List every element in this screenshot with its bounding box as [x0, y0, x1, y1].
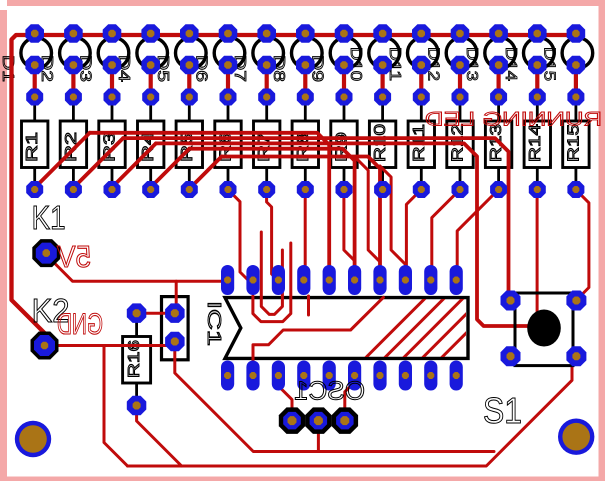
LED D6 name label	[193, 55, 210, 82]
switch S1 pads	[501, 291, 587, 367]
wire: R16 top pad to C1 top pad	[137, 312, 175, 315]
IC pin 1 pad (top row)	[221, 265, 234, 295]
IC pin 20 pad (bottom row)	[221, 361, 234, 391]
wire: R3 to bus3	[110, 143, 156, 189]
resistor R8	[292, 103, 318, 183]
svg-text:IC1: IC1	[204, 301, 224, 346]
LED D8 silkscreen circle	[292, 38, 323, 69]
resistor R10	[369, 103, 395, 183]
LED D3 name label	[77, 55, 94, 82]
svg-text:S1: S1	[483, 390, 522, 431]
IC pin 4 pad (top row)	[297, 265, 310, 295]
connector K1 pad	[32, 239, 60, 267]
LED D13 name label	[463, 47, 480, 81]
wire: K2 to C1 bottom pad (GND)	[45, 342, 175, 346]
LED D1 name label	[0, 55, 16, 82]
LED D4 name label	[115, 55, 132, 82]
LED D7 name label	[231, 55, 248, 82]
IC pin 12 pad (bottom row)	[424, 361, 437, 391]
resistor R5 pads	[181, 89, 198, 199]
label RUNNING LED (mirrored, bottom copper)	[425, 110, 602, 131]
wire: R12 to IC pin 9	[432, 190, 460, 265]
resistor R4	[138, 103, 164, 183]
IC pin 13 pad (bottom row)	[399, 361, 412, 391]
IC pin 8 pad (top row)	[399, 265, 412, 295]
LED D1 pads	[25, 24, 44, 74]
resistor R14	[524, 103, 550, 183]
LED D2 pads	[64, 24, 83, 74]
resistor R13	[485, 103, 511, 183]
label GND (mirrored, bottom copper)	[57, 308, 103, 341]
wire: bus5 to IC pin 7	[222, 157, 380, 266]
resistor R7	[254, 103, 280, 183]
LED D14 pads	[528, 24, 547, 74]
svg-text:OSC1: OSC1	[294, 376, 365, 406]
LED D12 silkscreen circle	[446, 38, 477, 69]
board dimension frame bottom	[0, 477, 605, 481]
wire: R14 to S1	[536, 190, 539, 315]
LED D9 silkscreen circle	[330, 38, 361, 69]
IC pin 6 pad (top row)	[348, 265, 361, 295]
wire: R5 to bus5	[189, 157, 222, 190]
LED D5 silkscreen circle	[176, 38, 207, 69]
board dimension frame top	[7, 0, 605, 6]
label 5V (mirrored, bottom copper)	[57, 239, 91, 274]
wire: R11 to IC pin 8	[405, 190, 421, 265]
IC pin 10 pad (top row)	[450, 265, 463, 295]
LED D3 silkscreen circle	[98, 38, 129, 69]
wire: bus2 to S1 top-left pad	[123, 138, 508, 298]
capacitor C1 body	[162, 297, 189, 360]
wire: R2 to bus2	[72, 138, 123, 189]
wire: LED D2 cathode to R2	[71, 65, 75, 97]
wire: bus riser near x=368	[356, 158, 380, 261]
wire: bus3 to S1 left side	[156, 143, 527, 326]
wire: LED D9 cathode to R9	[342, 65, 346, 97]
IC pin 7 pad (top row)	[373, 265, 386, 295]
resistor R16 pads	[127, 303, 147, 415]
LED D6 pads	[219, 24, 238, 74]
wire: R9 vertical to IC pin 6	[344, 190, 355, 261]
wire: LED D6 cathode to R6	[226, 65, 230, 97]
LED D11 name label	[386, 47, 403, 81]
IC pin 15 pad (bottom row)	[348, 361, 361, 391]
wire: top LED bus to K2 (GND rail)	[12, 35, 576, 345]
LED D4 pads	[141, 24, 160, 74]
resistor R15 pads	[567, 89, 584, 199]
resistor R11 pads	[413, 89, 430, 199]
LED D5 name label	[154, 55, 171, 82]
resistor R11	[408, 103, 434, 183]
wire: bottom GND rail to S1 bottom-right pad	[128, 357, 573, 466]
LED D10 name label	[347, 47, 364, 81]
LED D3 pads	[103, 24, 122, 74]
connector K2 pad	[31, 332, 59, 360]
svg-text:GND: GND	[57, 308, 103, 341]
wire: LED D14 cathode to R14	[535, 65, 539, 97]
IC pin 16 pad (bottom row)	[323, 361, 336, 391]
board dimension frame right	[599, 0, 605, 481]
wire: LED D11 cathode to R11	[419, 65, 423, 97]
wire: OSC1 left pad to IC pin 13	[278, 386, 292, 414]
LED D14 name label	[502, 47, 519, 81]
LED D14 silkscreen circle	[524, 38, 555, 69]
wire: LED D13 cathode to R13	[497, 65, 501, 97]
resistor R4 pads	[142, 89, 159, 199]
wire: LED D7 cathode to R7	[265, 65, 269, 97]
LED D15 pads	[567, 24, 586, 74]
switch S1 body	[515, 293, 573, 366]
wire: LED D10 cathode to R10	[381, 65, 385, 97]
wire: LED D4 cathode to R4	[149, 65, 153, 97]
wire: R8 to IC pin 4	[304, 190, 307, 265]
label IC1 (rotated)	[204, 301, 224, 346]
wire: bus1 to IC pin 5	[90, 133, 330, 265]
wire: GND branch down left of OSC1	[104, 346, 128, 467]
mounting hole bottom-left	[15, 421, 51, 457]
resistor R15	[563, 103, 589, 183]
LED D9 pads	[335, 24, 354, 74]
IC pin 19 pad (bottom row)	[246, 361, 259, 391]
IC pin 3 pad (top row)	[272, 265, 285, 295]
wire: R1 to bus1	[34, 133, 90, 189]
board dimension frame left	[0, 10, 7, 481]
wire: K1 to IC pin 1 (5V)	[49, 258, 227, 281]
LED D11 silkscreen circle	[408, 38, 439, 69]
LED D7 pads	[257, 24, 276, 74]
op-amp / IC U1 (IC1) DIP body	[225, 298, 468, 359]
resistor R10 pads	[374, 89, 391, 199]
svg-text:R1: R1	[24, 132, 41, 162]
resistor R2	[60, 103, 86, 183]
resistor R5	[176, 103, 202, 183]
LED D7 silkscreen circle	[253, 38, 284, 69]
wire: OSC1 right pad to IC pin 16	[345, 382, 355, 414]
LED D10 pads	[373, 24, 392, 74]
wire: IC interior stub from pin 4	[307, 296, 310, 315]
wire: R6 to IC pin 2	[228, 190, 253, 285]
label OSC1 (mirrored)	[294, 376, 365, 406]
wire: bus riser near x=391	[380, 166, 405, 264]
resistor R6 pads	[220, 89, 237, 199]
resistor R2 pads	[65, 89, 82, 199]
LED D15 silkscreen circle	[562, 38, 593, 69]
wire: IC interior elbow outer	[253, 243, 291, 322]
LED D1 silkscreen circle	[21, 38, 52, 69]
resistor R14 pads	[529, 89, 546, 199]
LED D8 pads	[296, 24, 315, 74]
svg-text:RUNNING LED: RUNNING LED	[425, 110, 602, 131]
wire: IC interior elbow inner	[261, 232, 282, 314]
LED D15 name label	[540, 47, 557, 81]
LED D11 pads	[412, 24, 431, 74]
wire: R15 to S1 top-right pad	[576, 190, 589, 299]
LED D2 name label	[38, 55, 55, 82]
wire: R16 bottom pad to GND rail	[137, 406, 182, 466]
LED D13 pads	[489, 24, 508, 74]
LED D2 silkscreen circle	[60, 38, 91, 69]
IC pin 5 pad (top row)	[323, 265, 336, 295]
svg-text:D1: D1	[0, 55, 16, 82]
resistor R9 pads	[336, 89, 353, 199]
IC pin 11 pad (bottom row)	[450, 361, 463, 391]
resistor R13 pads	[490, 89, 507, 199]
LED D12 name label	[425, 47, 442, 81]
wire: C1 top pad to 5V rail	[175, 281, 178, 312]
oscillator OSC1 pads	[279, 407, 358, 434]
wire: R4 to bus4	[149, 149, 189, 189]
mounting hole bottom-right	[558, 419, 594, 455]
capacitor C1 pads	[165, 303, 185, 351]
wire: LED D1 cathode to R1	[33, 65, 37, 97]
IC pin 18 pad (bottom row)	[272, 361, 285, 391]
IC pin 14 pad (bottom row)	[373, 361, 386, 391]
IC pin 2 pad (top row)	[246, 265, 259, 295]
LED D13 silkscreen circle	[485, 38, 516, 69]
LED D4 silkscreen circle	[137, 38, 168, 69]
resistor R7 pads	[258, 89, 275, 199]
LED D10 silkscreen circle	[369, 38, 400, 69]
svg-text:5V: 5V	[57, 239, 91, 274]
wire: IC interior Z trace from pin 12	[253, 297, 383, 363]
wire: LED D12 cathode to R12	[458, 65, 462, 97]
wire: R7 to IC pin 3	[267, 190, 279, 281]
resistor R12 pads	[452, 89, 469, 199]
svg-text:K1: K1	[32, 199, 66, 236]
resistor R16	[123, 320, 151, 398]
wire: IC interior diagonals	[365, 297, 502, 358]
resistor R9	[331, 103, 357, 183]
resistor R1	[22, 103, 48, 183]
wire: LED D3 cathode to R3	[110, 65, 114, 97]
IC pin 9 pad (top row)	[424, 265, 437, 295]
resistor R8 pads	[297, 89, 314, 199]
switch S1 button cap	[527, 310, 561, 347]
wire: R13 to IC pin 10	[457, 190, 498, 265]
resistor R6	[215, 103, 241, 183]
wire: LED D8 cathode to R8	[303, 65, 307, 97]
LED D8 name label	[270, 55, 287, 82]
wire: bus4 to IC pin 6	[189, 149, 354, 265]
wire: LED D15 cathode to R15	[574, 65, 578, 97]
LED D5 pads	[180, 24, 199, 74]
LED D6 silkscreen circle	[214, 38, 245, 69]
wire: C1 bottom pad to lower signal rail	[175, 342, 494, 452]
resistor R3	[99, 103, 125, 183]
resistor R12	[447, 103, 473, 183]
LED D9 name label	[309, 55, 326, 82]
wire: OSC1 middle pad to lower rail	[317, 428, 320, 452]
resistor R1 pads	[26, 89, 43, 199]
wire: LED D5 cathode to R5	[187, 65, 191, 97]
resistor R3 pads	[104, 89, 121, 199]
LED D12 pads	[451, 24, 470, 74]
IC pin 17 pad (bottom row)	[297, 361, 310, 391]
